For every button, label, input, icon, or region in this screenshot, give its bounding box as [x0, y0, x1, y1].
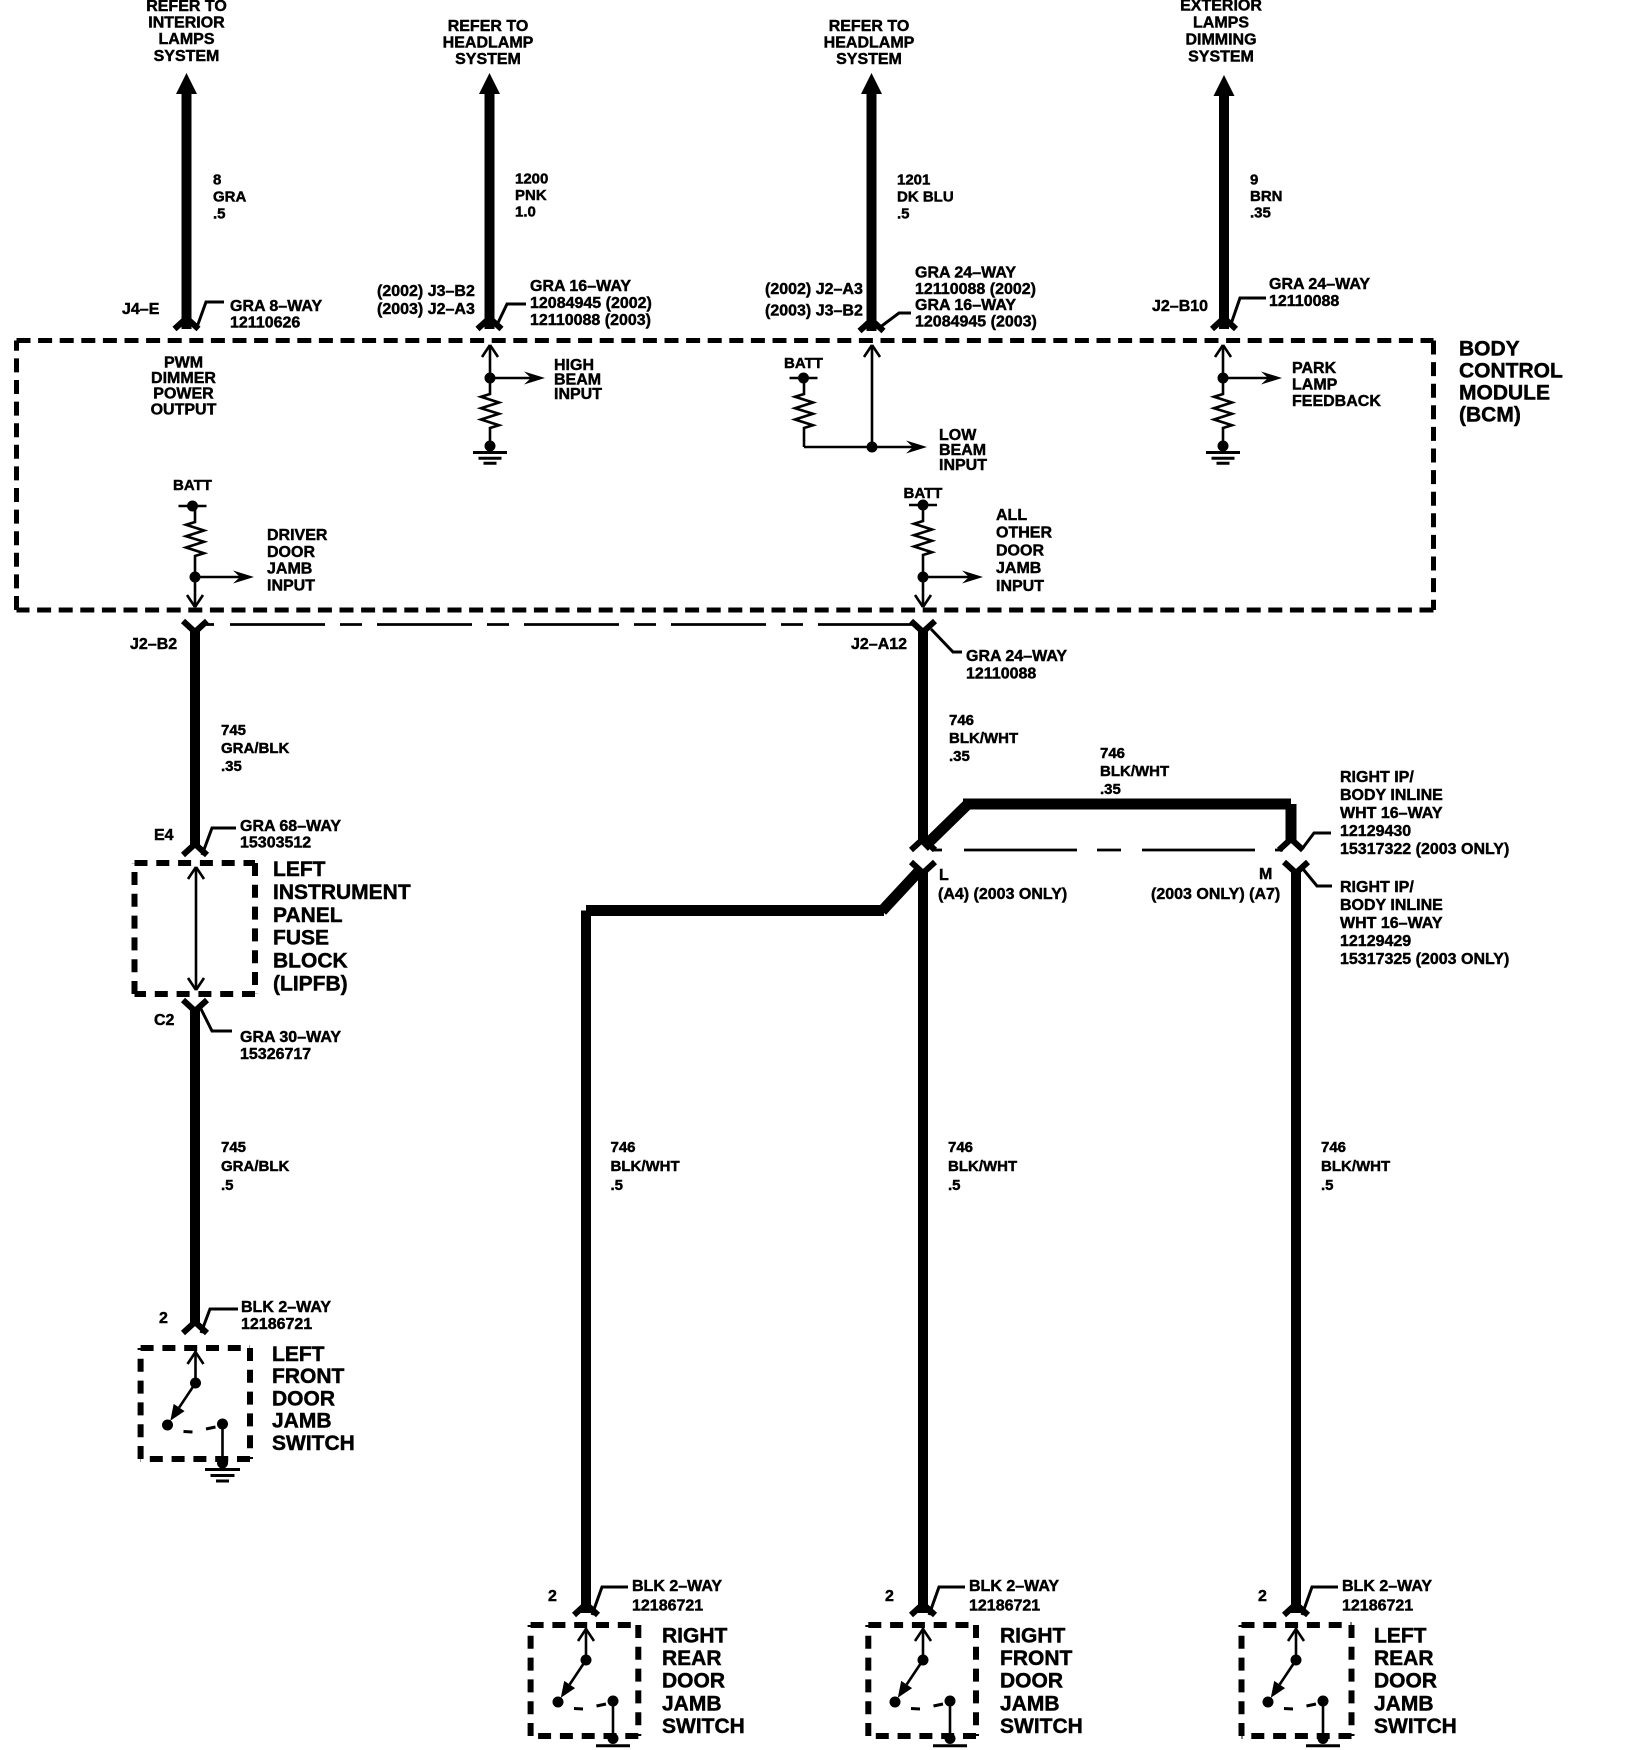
wire 1201 DK BLU .5 (to headlamp system): [860, 73, 884, 331]
svg-text:JAMB: JAMB: [272, 1410, 332, 1433]
svg-text:BATT: BATT: [784, 355, 823, 372]
connector GRA 24-WAY 12110088 leader (J2-B10): [1231, 298, 1266, 324]
signal arrow PARK LAMP FEEDBACK: [1223, 377, 1269, 380]
pin arrow down (all other door jamb pin J2-A12): [915, 577, 931, 607]
svg-text:REFER TO: REFER TO: [829, 18, 910, 35]
svg-text:.35: .35: [1100, 781, 1121, 798]
wire: left rear door jamb switch to ground: [1322, 1701, 1325, 1737]
wire: right rear door jamb switch to ground: [612, 1701, 615, 1737]
wire 745 GRA/BLK .35 (J2-B2 to fuse block): [183, 621, 207, 855]
svg-text:REFER TO: REFER TO: [448, 18, 529, 35]
node: low beam junction: [867, 442, 878, 453]
svg-text:12186721: 12186721: [1342, 1598, 1413, 1615]
svg-text:BLK/WHT: BLK/WHT: [1100, 763, 1169, 780]
signal arrow HIGH BEAM INPUT: [490, 377, 532, 380]
svg-text:GRA 24–WAY: GRA 24–WAY: [915, 264, 1016, 281]
svg-text:RIGHT IP/: RIGHT IP/: [1340, 769, 1414, 786]
svg-text:SYSTEM: SYSTEM: [1188, 49, 1254, 66]
svg-text:.5: .5: [221, 1177, 234, 1194]
svg-text:LAMP: LAMP: [1292, 376, 1338, 393]
connector BLK 2-WAY 12186721 leader (right front door jamb switch): [929, 1587, 965, 1615]
svg-text:DOOR: DOOR: [1000, 1670, 1063, 1693]
svg-text:INTERIOR: INTERIOR: [148, 15, 225, 32]
svg-text:WHT 16–WAY: WHT 16–WAY: [1340, 805, 1443, 822]
svg-text:OUTPUT: OUTPUT: [151, 401, 217, 418]
svg-text:GRA 68–WAY: GRA 68–WAY: [240, 818, 341, 835]
svg-text:C2: C2: [154, 1012, 175, 1029]
connector GRA 30-WAY 15326717 leader: [200, 1007, 232, 1031]
wire 1200 PNK 1.0 (to headlamp system): [478, 73, 502, 329]
switch (right front door jamb switch): [890, 1628, 956, 1709]
svg-text:12084945 (2002): 12084945 (2002): [530, 295, 652, 312]
svg-text:LAMPS: LAMPS: [1193, 15, 1249, 32]
svg-text:DOOR: DOOR: [272, 1387, 335, 1410]
svg-text:(BCM): (BCM): [1459, 404, 1521, 427]
svg-text:(2003 ONLY) (A7): (2003 ONLY) (A7): [1151, 886, 1280, 903]
right front door jamb switch dashed box: [868, 1625, 976, 1736]
connector BLK 2-WAY 12186721 leader (right rear door jamb switch): [592, 1587, 628, 1615]
svg-text:MODULE: MODULE: [1459, 382, 1550, 405]
svg-text:745: 745: [221, 1139, 246, 1156]
wire 745 GRA/BLK .5 (fuse block to left front door jamb switch): [183, 1000, 207, 1333]
wire 746 BLK/WHT .5 (M to left rear door jamb switch): [1284, 862, 1308, 1615]
signal arrow DRIVER DOOR JAMB INPUT: [195, 576, 241, 579]
svg-text:L: L: [939, 867, 949, 884]
connector BLK 2-WAY 12186721 leader (left front): [201, 1309, 238, 1333]
resistor (low beam pull-up): [795, 378, 813, 447]
svg-text:JAMB: JAMB: [1000, 1692, 1060, 1715]
svg-text:(A4) (2003 ONLY): (A4) (2003 ONLY): [938, 886, 1067, 903]
Body Control Module dashed box: [17, 341, 1434, 611]
svg-text:2: 2: [548, 1588, 557, 1605]
svg-text:LEFT: LEFT: [273, 858, 326, 881]
svg-text:INPUT: INPUT: [554, 386, 602, 403]
svg-text:BATT: BATT: [904, 485, 943, 502]
svg-text:SYSTEM: SYSTEM: [154, 48, 220, 65]
svg-text:(LIPFB): (LIPFB): [273, 973, 348, 996]
pin arrow (high beam input pin): [482, 345, 498, 378]
svg-text:BLK/WHT: BLK/WHT: [948, 1158, 1017, 1175]
svg-text:DIMMING: DIMMING: [1185, 32, 1256, 49]
svg-text:9: 9: [1250, 172, 1258, 189]
svg-text:POWER: POWER: [153, 386, 214, 403]
svg-text:GRA 30–WAY: GRA 30–WAY: [240, 1029, 341, 1046]
node: park lamp junction: [1218, 373, 1229, 384]
svg-text:DOOR: DOOR: [662, 1670, 725, 1693]
Left Instrument Panel Fuse Block dashed box: [135, 863, 256, 994]
svg-text:2: 2: [885, 1588, 894, 1605]
svg-text:.5: .5: [213, 206, 226, 223]
svg-text:RIGHT: RIGHT: [1000, 1625, 1066, 1648]
svg-text:12186721: 12186721: [969, 1598, 1040, 1615]
svg-text:BATT: BATT: [173, 477, 212, 494]
svg-text:BLOCK: BLOCK: [273, 950, 348, 973]
ground (left rear door jamb switch): [1306, 1733, 1340, 1750]
svg-text:E4: E4: [154, 827, 174, 844]
svg-text:J2–A12: J2–A12: [851, 636, 907, 653]
connector GRA 24-WAY 12110088 leader (J2-A12): [931, 629, 962, 652]
wire 9 BRN .35 (to exterior lamps dimming system): [1212, 75, 1236, 329]
svg-text:BLK/WHT: BLK/WHT: [1321, 1158, 1390, 1175]
svg-text:15317322 (2003 ONLY): 15317322 (2003 ONLY): [1340, 841, 1509, 858]
fuse block internal link (double arrow): [188, 867, 204, 990]
wire branch 746 BLK/WHT to right rear switch: [574, 869, 921, 1615]
wire 746 BLK/WHT .35 (J2-A12 down to inline connectors): [911, 621, 935, 850]
svg-text:WHT 16–WAY: WHT 16–WAY: [1340, 915, 1443, 932]
svg-text:8: 8: [213, 172, 221, 189]
svg-text:12110088: 12110088: [1269, 293, 1339, 310]
ground (right front door jamb switch): [933, 1733, 967, 1750]
svg-text:GRA 8–WAY: GRA 8–WAY: [230, 298, 323, 315]
svg-text:JAMB: JAMB: [662, 1692, 722, 1715]
node: park lamp resistor to ground: [1218, 441, 1229, 452]
svg-text:.5: .5: [1321, 1177, 1334, 1194]
svg-text:HEADLAMP: HEADLAMP: [443, 35, 534, 52]
svg-text:JAMB: JAMB: [1374, 1692, 1434, 1715]
svg-text:2: 2: [159, 1310, 168, 1327]
pin arrow (park lamp feedback pin): [1215, 345, 1231, 378]
svg-text:GRA 24–WAY: GRA 24–WAY: [1269, 276, 1370, 293]
svg-text:746: 746: [949, 712, 974, 729]
left front door jamb switch dashed box: [141, 1348, 250, 1459]
svg-text:746: 746: [948, 1139, 973, 1156]
ground (high beam): [473, 453, 507, 464]
svg-text:FEEDBACK: FEEDBACK: [1292, 393, 1381, 410]
svg-text:12186721: 12186721: [632, 1598, 703, 1615]
svg-text:SWITCH: SWITCH: [1374, 1715, 1457, 1738]
svg-text:1200: 1200: [515, 171, 548, 188]
wire 8 GRA .5 (to interior lamps system): [175, 73, 199, 329]
svg-text:RIGHT: RIGHT: [662, 1625, 728, 1648]
svg-text:(2002) J3–B2: (2002) J3–B2: [377, 283, 475, 300]
svg-text:746: 746: [611, 1139, 636, 1156]
resistor (park lamp pull-down): [1214, 378, 1232, 446]
connector GRA 8-WAY 12110626 leader: [197, 302, 224, 327]
svg-text:FRONT: FRONT: [1000, 1647, 1072, 1670]
svg-text:BLK 2–WAY: BLK 2–WAY: [969, 1578, 1059, 1595]
svg-text:BODY INLINE: BODY INLINE: [1340, 897, 1443, 914]
svg-text:FUSE: FUSE: [273, 927, 329, 950]
svg-text:GRA 16–WAY: GRA 16–WAY: [530, 278, 631, 295]
svg-text:15326717: 15326717: [240, 1046, 311, 1063]
svg-text:REAR: REAR: [662, 1647, 722, 1670]
svg-text:12110088 (2002): 12110088 (2002): [915, 281, 1036, 298]
connector GRA 24-WAY / GRA 16-WAY leader: [879, 313, 911, 328]
wire branch 746 BLK/WHT .35 to connector M: [924, 804, 1303, 850]
svg-text:1201: 1201: [897, 172, 930, 189]
node: high beam resistor to ground: [485, 441, 496, 452]
svg-text:2: 2: [1258, 1588, 1267, 1605]
svg-text:BLK/WHT: BLK/WHT: [949, 730, 1018, 747]
svg-text:(2003) J3–B2: (2003) J3–B2: [765, 303, 863, 320]
svg-text:BRN: BRN: [1250, 188, 1283, 205]
svg-text:BLK 2–WAY: BLK 2–WAY: [241, 1299, 331, 1316]
switch (left rear door jamb switch): [1263, 1628, 1329, 1709]
svg-text:12110088 (2003): 12110088 (2003): [530, 312, 651, 329]
switch (right rear door jamb switch): [553, 1628, 619, 1709]
svg-text:GRA 24–WAY: GRA 24–WAY: [966, 648, 1067, 665]
svg-text:.35: .35: [949, 748, 970, 765]
svg-text:(2002) J2–A3: (2002) J2–A3: [765, 281, 863, 298]
svg-text:746: 746: [1100, 745, 1125, 762]
ground (park lamp): [1206, 453, 1240, 464]
connector line below BCM (dash-dot): [206, 623, 919, 626]
inline connector line L-M (dash-dot): [934, 849, 1283, 852]
svg-text:.35: .35: [1250, 205, 1271, 222]
left rear door jamb switch dashed box: [1242, 1625, 1352, 1736]
svg-text:DOOR: DOOR: [267, 544, 315, 561]
svg-text:LEFT: LEFT: [1374, 1625, 1427, 1648]
right rear door jamb switch dashed box: [531, 1625, 639, 1736]
svg-text:.5: .5: [948, 1177, 961, 1194]
svg-text:BODY INLINE: BODY INLINE: [1340, 787, 1443, 804]
switch (left front door jamb): [162, 1351, 228, 1432]
svg-text:GRA 16–WAY: GRA 16–WAY: [915, 297, 1016, 314]
node: driver door jamb junction: [190, 572, 201, 583]
svg-text:DK BLU: DK BLU: [897, 189, 954, 206]
node: high beam junction: [485, 373, 496, 384]
svg-text:FRONT: FRONT: [272, 1365, 344, 1388]
wire: left front switch to ground: [221, 1424, 224, 1462]
svg-text:SWITCH: SWITCH: [1000, 1715, 1083, 1738]
svg-text:PNK: PNK: [515, 187, 547, 204]
svg-text:BODY: BODY: [1459, 338, 1520, 361]
svg-text:746: 746: [1321, 1139, 1346, 1156]
svg-text:15317325 (2003 ONLY): 15317325 (2003 ONLY): [1340, 951, 1509, 968]
svg-text:12129429: 12129429: [1340, 933, 1411, 950]
svg-text:INPUT: INPUT: [939, 457, 987, 474]
svg-text:12186721: 12186721: [241, 1316, 312, 1333]
svg-text:SWITCH: SWITCH: [272, 1432, 355, 1455]
svg-text:.5: .5: [897, 206, 910, 223]
pin arrow (low beam input pin): [864, 345, 880, 447]
svg-text:12084945 (2003): 12084945 (2003): [915, 314, 1037, 331]
svg-text:SYSTEM: SYSTEM: [455, 51, 521, 68]
svg-text:JAMB: JAMB: [996, 560, 1041, 577]
svg-text:SWITCH: SWITCH: [662, 1715, 745, 1738]
svg-text:REFER TO: REFER TO: [146, 0, 227, 15]
svg-text:15303512: 15303512: [240, 835, 311, 852]
svg-text:1.0: 1.0: [515, 204, 536, 221]
svg-text:DRIVER: DRIVER: [267, 527, 328, 544]
wire: resistor to low beam node: [804, 446, 872, 449]
svg-text:RIGHT IP/: RIGHT IP/: [1340, 879, 1414, 896]
svg-text:PWM: PWM: [164, 355, 203, 372]
svg-text:12110626: 12110626: [230, 315, 300, 332]
svg-text:.35: .35: [221, 758, 242, 775]
svg-text:745: 745: [221, 722, 246, 739]
wire 746 BLK/WHT .5 (L to right front door jamb switch): [911, 862, 935, 1615]
svg-text:CONTROL: CONTROL: [1459, 360, 1563, 383]
svg-text:PANEL: PANEL: [273, 904, 343, 927]
svg-text:LAMPS: LAMPS: [159, 31, 215, 48]
svg-text:HEADLAMP: HEADLAMP: [824, 35, 915, 52]
svg-text:EXTERIOR: EXTERIOR: [1180, 0, 1262, 15]
signal arrow LOW BEAM INPUT: [872, 446, 914, 449]
resistor (all other door jamb pull-up): [914, 505, 932, 577]
svg-text:BLK 2–WAY: BLK 2–WAY: [1342, 1578, 1432, 1595]
svg-text:GRA/BLK: GRA/BLK: [221, 1158, 289, 1175]
svg-text:DOOR: DOOR: [1374, 1670, 1437, 1693]
svg-text:SYSTEM: SYSTEM: [836, 51, 902, 68]
svg-text:REAR: REAR: [1374, 1647, 1434, 1670]
wire: right front door jamb switch to ground: [949, 1701, 952, 1737]
ground (right rear door jamb switch): [596, 1733, 630, 1750]
svg-text:INPUT: INPUT: [267, 577, 315, 594]
connector RIGHT IP/BODY INLINE WHT 16-WAY 12129429 leader: [1303, 869, 1332, 886]
svg-text:GRA/BLK: GRA/BLK: [221, 740, 289, 757]
svg-text:LEFT: LEFT: [272, 1343, 325, 1366]
svg-text:GRA: GRA: [213, 189, 247, 206]
node: all other door jamb junction: [918, 572, 929, 583]
pin arrow down (driver door jamb pin J2-B2): [187, 577, 203, 607]
svg-text:M: M: [1259, 866, 1272, 883]
svg-text:PARK: PARK: [1292, 360, 1337, 377]
svg-text:JAMB: JAMB: [267, 561, 312, 578]
svg-text:DOOR: DOOR: [996, 542, 1044, 559]
svg-text:BLK/WHT: BLK/WHT: [611, 1158, 680, 1175]
svg-text:OTHER: OTHER: [996, 525, 1052, 542]
svg-text:INSTRUMENT: INSTRUMENT: [273, 881, 411, 904]
svg-text:J4–E: J4–E: [122, 301, 160, 318]
svg-text:ALL: ALL: [996, 507, 1027, 524]
svg-text:(2003) J2–A3: (2003) J2–A3: [377, 301, 475, 318]
connector BLK 2-WAY 12186721 leader (left rear door jamb switch): [1302, 1587, 1338, 1615]
svg-text:INPUT: INPUT: [996, 578, 1044, 595]
svg-text:.5: .5: [611, 1177, 624, 1194]
connector GRA 16-WAY leader: [496, 304, 526, 327]
resistor (high beam pull-down): [481, 378, 499, 446]
svg-text:J2–B2: J2–B2: [130, 636, 177, 653]
svg-text:BLK 2–WAY: BLK 2–WAY: [632, 1578, 722, 1595]
signal arrow ALL OTHER DOOR JAMB INPUT: [923, 576, 970, 579]
resistor (driver door jamb pull-up): [186, 506, 204, 577]
svg-text:12129430: 12129430: [1340, 823, 1411, 840]
ground (left front door jamb switch): [205, 1458, 240, 1482]
svg-text:DIMMER: DIMMER: [151, 370, 216, 387]
connector GRA 68-WAY 15303512 leader: [202, 828, 236, 855]
svg-text:12110088: 12110088: [966, 666, 1036, 683]
connector RIGHT IP/BODY INLINE WHT 16-WAY 12129430 leader: [1302, 833, 1331, 849]
svg-text:J2–B10: J2–B10: [1152, 298, 1208, 315]
